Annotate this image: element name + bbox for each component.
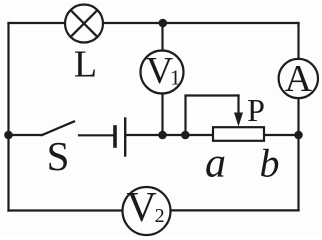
ammeter A circle	[279, 59, 318, 98]
bottom wire: voltmeter V2 to right corner	[170, 209, 298, 211]
left rail wire	[7, 23, 9, 211]
node dot: right rail middle junction	[294, 131, 303, 140]
voltmeter V1 circle	[141, 51, 184, 94]
wiper arrow shaft	[237, 96, 239, 115]
wire: battery to node under V1	[125, 134, 162, 136]
battery negative short plate	[113, 127, 117, 146]
lamp X stroke 1	[71, 10, 98, 37]
voltmeter V2 circle	[123, 187, 171, 235]
wire: rheostat right terminal to right rail	[264, 134, 299, 136]
svg-text:b: b	[260, 140, 280, 185]
lamp X stroke 2	[71, 10, 98, 37]
wire: node to rheostat left terminal	[185, 134, 213, 136]
voltmeter V1 bottom lead wire	[161, 94, 163, 136]
svg-text:S: S	[47, 133, 70, 179]
svg-text:1: 1	[170, 65, 181, 89]
right rail wire: corner down to ammeter	[297, 23, 299, 59]
svg-text:L: L	[74, 44, 97, 86]
wire: node to node of wiper loop	[163, 134, 186, 136]
lamp L circle	[65, 5, 103, 43]
wiper arrowhead	[234, 113, 243, 127]
svg-text:a: a	[205, 140, 226, 186]
node dot: left rail middle junction	[4, 131, 13, 140]
svg-text:2: 2	[155, 205, 165, 227]
wire: top-left from corner to lamp	[9, 22, 66, 24]
right rail wire: ammeter down to bottom corner	[297, 98, 299, 210]
wire: top from lamp to node at V1 branch	[103, 22, 163, 24]
switch S blade	[42, 122, 74, 136]
wire: switch to battery	[79, 134, 115, 136]
svg-text:A: A	[285, 58, 313, 100]
voltmeter V1 top lead wire	[161, 23, 163, 51]
node dot: top junction above V1	[159, 19, 168, 28]
node dot: wiper loop junction on middle wire	[181, 131, 190, 140]
node dot: under V1 on middle wire	[158, 131, 167, 140]
svg-text:P: P	[247, 92, 265, 128]
wire: top from node to top-right corner	[163, 22, 299, 24]
svg-text:V: V	[126, 185, 156, 231]
wire: middle left rail to switch	[9, 134, 43, 136]
wiper loop wire up and right	[186, 96, 239, 136]
battery positive long plate	[124, 119, 126, 156]
bottom wire: left corner to voltmeter V2	[9, 209, 123, 211]
rheostat P body rectangle	[213, 127, 264, 141]
